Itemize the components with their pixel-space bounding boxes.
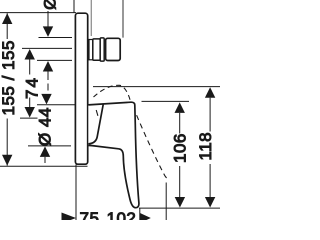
stub washer ring at plate (89, 40, 93, 60)
stub diameter dimension upper stem (47, 11, 49, 28)
dimension 106 line upper segment (179, 113, 181, 134)
dashed raised-hub front edge (96, 110, 98, 116)
extension line below raised-handle tip (165, 183, 167, 221)
svg-text:Ø: Ø (41, 0, 60, 10)
dimension 155/155 lower arrowhead (2, 155, 12, 166)
bottom datum line (wall reference) (139, 207, 220, 209)
extension line top of plate (datum for 155) (0, 12, 76, 14)
dimension 118 lower arrowhead pointing down (205, 197, 215, 208)
stub ring A (93, 39, 100, 60)
dimension d44 lower stem (44, 157, 46, 163)
svg-text:102: 102 (107, 209, 137, 220)
extension line at 74 bottom (20, 117, 38, 119)
dimension d44 lower arrowhead pointing up (40, 146, 50, 157)
extension line stub axis (datum for 74) (22, 47, 72, 49)
extension line handle hub bottom (datum for d44) (28, 145, 71, 147)
extension line stub top edge (39, 37, 73, 39)
svg-text:106: 106 (170, 133, 189, 163)
extension line from stub right edge to image top (122, 0, 124, 38)
dimension 155/155 upper arrowhead (2, 13, 12, 24)
stub ring B (100, 38, 104, 61)
dimension 155/155 line lower segment (6, 119, 8, 166)
svg-text:Ø 44: Ø 44 (36, 107, 55, 146)
handle body outline (88, 102, 139, 208)
extension line vertical at left of plate top (73, 0, 75, 13)
stub end cap (106, 38, 121, 60)
dimension 74 lower arrowhead pointing down (25, 107, 35, 118)
dimension 74 upper arrowhead pointing up (25, 49, 35, 60)
dimension 74 line lower segment (29, 98, 31, 108)
extension line bottom of plate (datum for 155) (0, 165, 88, 167)
dimension 118 upper arrowhead pointing up (205, 87, 215, 98)
extension line handle top right (datum for 106) (142, 100, 190, 102)
dimension 118 line upper segment (209, 98, 211, 132)
dimension 106 upper arrowhead pointing up (175, 102, 185, 113)
extension line below plate front (75, 165, 77, 221)
dimension 118 line lower segment (209, 164, 211, 198)
svg-text:75: 75 (80, 209, 100, 220)
dimension 106 lower arrowhead pointing down (175, 197, 185, 208)
svg-text:155 / 155: 155 / 155 (0, 40, 18, 115)
handle hub front edge (88, 105, 103, 144)
svg-text:74: 74 (23, 76, 42, 99)
dimension 155/155 line upper segment (6, 13, 8, 39)
dashed raised-handle grip edge and tip (137, 115, 170, 178)
bottom dimension left arrowhead pointing right (62, 213, 77, 224)
extension line from stub base to image top (90, 0, 92, 36)
stub diameter lower stem dash (47, 84, 49, 91)
dashed raised-handle top arc (94, 85, 131, 101)
extension line stub bottom edge (37, 59, 72, 61)
dimension 106 line lower segment (179, 166, 181, 198)
extension line below handle tip (139, 208, 141, 220)
escutcheon plate side view (75, 13, 87, 164)
stub diameter lower stem (47, 72, 49, 81)
extension line handle top (datum for d44) (37, 104, 75, 106)
bottom dimension right arrowhead pointing right (140, 213, 151, 223)
stub diameter upper arrowhead pointing down (43, 26, 53, 37)
stub diameter lower arrowhead pointing up (43, 61, 53, 72)
svg-text:118: 118 (196, 132, 215, 161)
dimension d44 upper arrowhead pointing down (41, 94, 51, 105)
dimension 74 line upper segment (29, 60, 31, 75)
extension line raised handle top (datum for 118) (93, 86, 220, 88)
